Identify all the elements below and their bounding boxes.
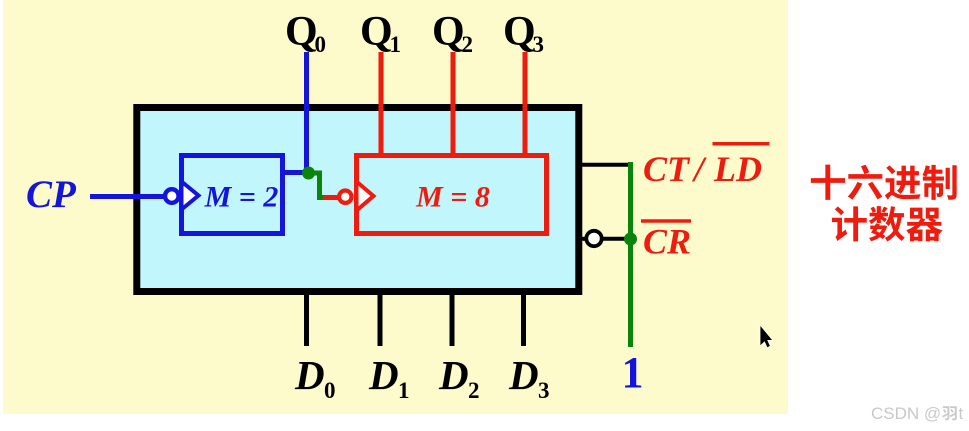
svg-text:D: D (294, 352, 325, 398)
svg-text:CR: CR (643, 222, 691, 262)
svg-text:CSDN @: CSDN @ (871, 404, 941, 423)
svg-text:3: 3 (533, 32, 545, 57)
svg-text:M = 8: M = 8 (415, 181, 490, 214)
svg-text:LD: LD (713, 149, 762, 189)
svg-text:2: 2 (462, 32, 474, 57)
svg-text:1: 1 (398, 378, 410, 403)
svg-text:D: D (508, 352, 539, 398)
svg-text:CT: CT (643, 149, 691, 189)
svg-text:t: t (959, 404, 964, 423)
svg-text:Q: Q (360, 9, 393, 55)
svg-text:CP: CP (26, 173, 77, 216)
svg-text:Q: Q (432, 9, 465, 55)
svg-text:0: 0 (315, 32, 327, 57)
svg-text:D: D (368, 352, 399, 398)
svg-text:Q: Q (285, 9, 318, 55)
svg-text:0: 0 (324, 378, 336, 403)
svg-text:1: 1 (390, 32, 402, 57)
svg-text:M = 2: M = 2 (204, 181, 279, 214)
svg-text:D: D (438, 352, 469, 398)
svg-text:Q: Q (503, 9, 536, 55)
svg-text:2: 2 (468, 378, 480, 403)
svg-text:3: 3 (538, 378, 550, 403)
svg-text:1: 1 (622, 348, 644, 397)
